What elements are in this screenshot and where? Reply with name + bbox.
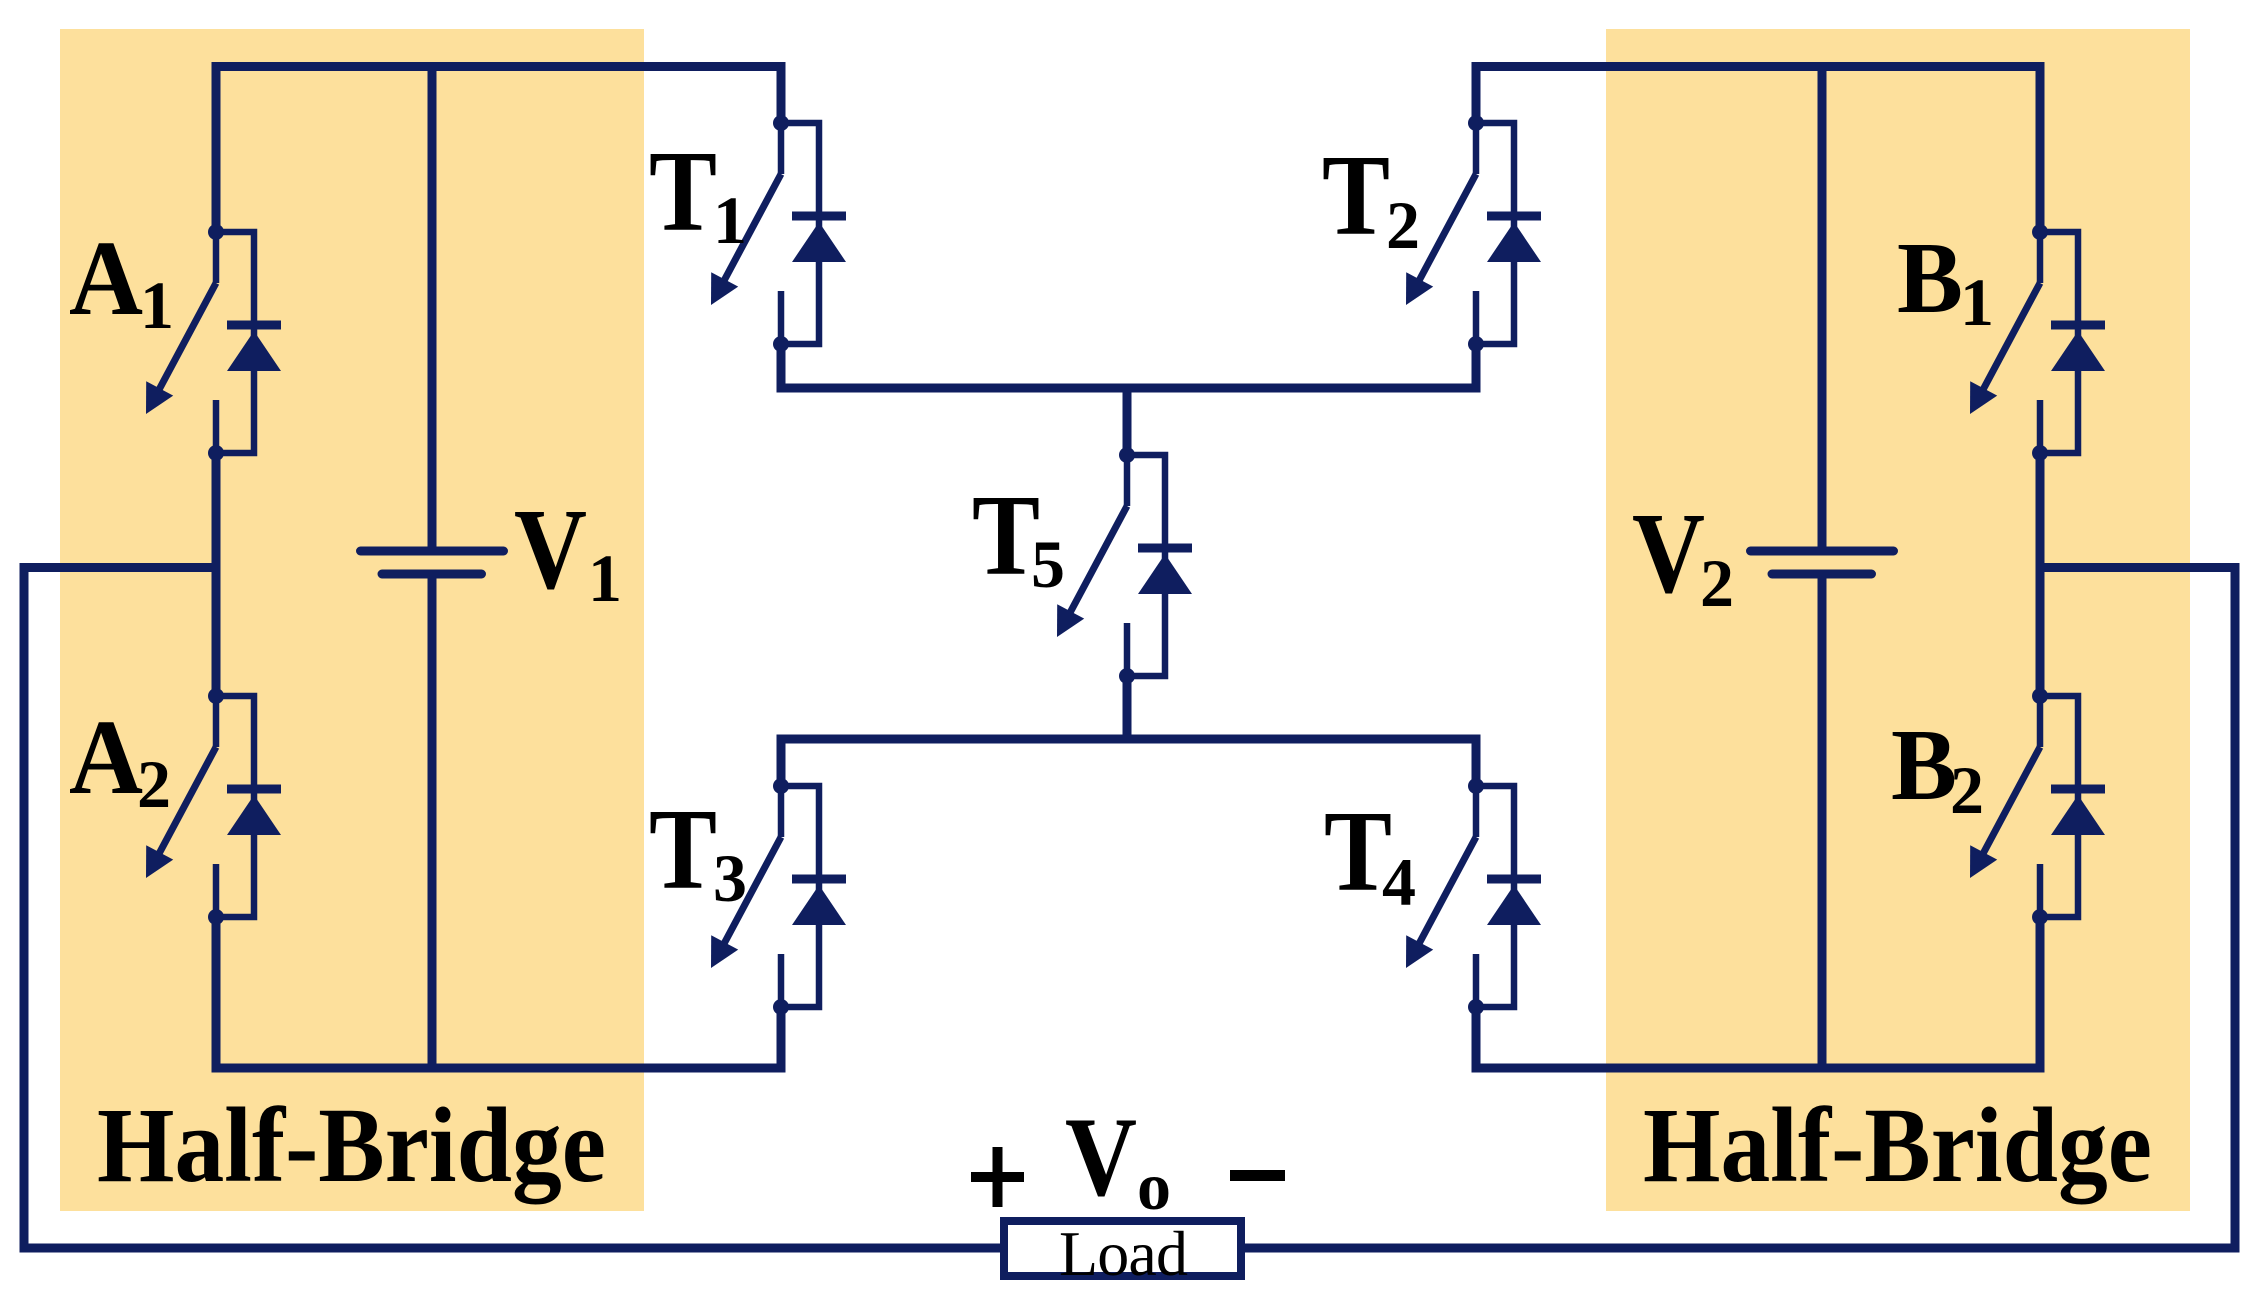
svg-text:1: 1 <box>588 540 622 616</box>
svg-text:A: A <box>69 699 143 817</box>
svg-text:A: A <box>69 220 143 338</box>
svg-text:V: V <box>1632 490 1705 618</box>
svg-text:T: T <box>1322 132 1390 259</box>
svg-text:1: 1 <box>713 182 747 258</box>
svg-text:4: 4 <box>1382 844 1416 920</box>
svg-text:3: 3 <box>713 840 747 916</box>
svg-text:2: 2 <box>1700 545 1734 621</box>
svg-text:B: B <box>1891 709 1957 822</box>
svg-text:B: B <box>1897 222 1963 335</box>
svg-text:V: V <box>514 486 587 614</box>
svg-text:T: T <box>649 786 717 913</box>
svg-text:Half-Bridge: Half-Bridge <box>97 1087 606 1205</box>
svg-text:T: T <box>972 472 1040 599</box>
svg-text:2: 2 <box>1386 187 1420 263</box>
svg-text:Load: Load <box>1059 1218 1188 1289</box>
svg-text:2: 2 <box>1950 752 1984 828</box>
svg-text:Half-Bridge: Half-Bridge <box>1643 1087 2152 1205</box>
svg-text:5: 5 <box>1031 526 1065 602</box>
svg-text:T: T <box>649 128 717 255</box>
svg-text:2: 2 <box>137 746 171 822</box>
svg-text:V: V <box>1065 1095 1137 1220</box>
svg-text:1: 1 <box>140 267 174 343</box>
svg-text:1: 1 <box>1960 264 1994 340</box>
svg-text:o: o <box>1137 1148 1171 1224</box>
